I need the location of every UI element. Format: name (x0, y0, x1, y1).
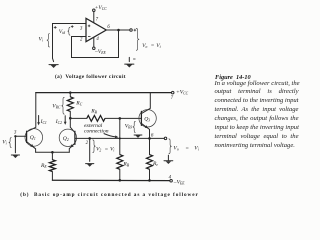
svg-text:Vo=Vi: Vo=Vi (142, 43, 161, 49)
transistor Q1 (25, 129, 43, 147)
ground: output reference (b) (167, 155, 169, 160)
wire: Q1 collector (27, 93, 36, 132)
source + polarity (54, 26, 57, 29)
- input marker (88, 36, 91, 38)
ground: input reference (14, 137, 16, 152)
resistor Rb (bias) (117, 155, 123, 170)
brace Vo (b) (169, 139, 172, 154)
wire: pin 4 to -Vee (93, 37, 95, 47)
junction rail/Re (148, 179, 151, 182)
junction node 6 (148, 137, 151, 140)
brace V2 (93, 140, 96, 153)
transistor Q2 (59, 129, 76, 146)
junction output/feedback (117, 29, 120, 32)
+ polarity Vid (71, 25, 74, 28)
terminal input pin 3 (14, 135, 16, 137)
terminal output (130, 29, 133, 32)
wire: output (106, 29, 130, 31)
ground: node 2 reference (89, 140, 91, 162)
brace Vi (47, 34, 50, 48)
svg-text:V2=Vi: V2=Vi (96, 146, 114, 152)
wire: Vi source vertical + top wire into pin 3 (53, 24, 87, 59)
junction Rc/Rb/Q2 collector (69, 117, 72, 120)
terminal +Vcc (93, 9, 96, 12)
terminal -Vee (93, 47, 96, 50)
svg-text:(b) Basic op-amp circuit conn: (b) Basic op-amp circuit connected as a … (20, 191, 198, 198)
brace Vo (136, 28, 139, 50)
wire: external connection node2-node6 (75, 137, 164, 139)
ground: output reference (128, 57, 130, 61)
junction external/divider (119, 137, 121, 139)
- polarity (133, 58, 135, 60)
brace Vid (68, 27, 71, 35)
transistor Q3 (139, 110, 156, 127)
+ input marker (88, 25, 91, 28)
current arrow Ic1 (38, 116, 40, 124)
wire: pin 2 stub + feedback loop (72, 30, 119, 58)
resistor Rc (69, 93, 71, 97)
ground: below source (53, 58, 54, 61)
wire: pin 7 to +Vcc (93, 11, 95, 22)
junction rail/Rb (119, 179, 122, 182)
resistor Rb (to Q3 base) (70, 117, 87, 119)
wire: +Vcc rail (36, 92, 172, 94)
brace Vrc (62, 97, 65, 114)
current arrow Ic2 (64, 116, 66, 123)
brace Vi (9, 138, 12, 148)
junction rail/Rc (69, 91, 72, 94)
junction emitters/Re (51, 151, 54, 154)
wire: divider vertical (119, 118, 121, 154)
svg-text:(a) Voltage follower circuit: (a) Voltage follower circuit (55, 73, 126, 80)
brace Vb3 (133, 121, 136, 132)
resistor Re (tail) (51, 152, 53, 159)
wire: -Vee rail (52, 179, 169, 181)
ground: Vb3 reference (134, 134, 142, 136)
wire: Q2 collector (70, 118, 75, 132)
terminal -Vee (170, 179, 173, 182)
junction node 2 (88, 137, 91, 140)
terminal output (b) (164, 137, 167, 140)
op-amp U1 (86, 18, 106, 41)
wire: common emitters (36, 151, 70, 153)
junction Rb wire / divider (119, 117, 122, 120)
resistor Re (Q3 emitter) (149, 138, 151, 154)
terminal +Vcc (171, 91, 174, 94)
